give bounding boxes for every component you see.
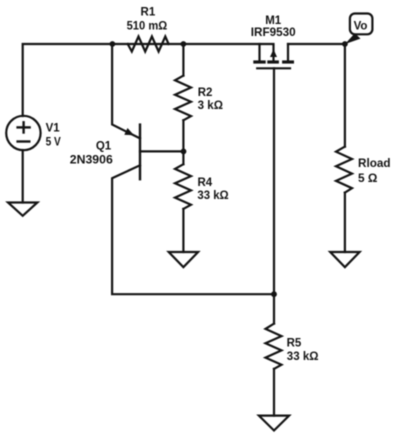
svg-text:Vo: Vo	[354, 20, 368, 32]
svg-text:V1: V1	[46, 123, 61, 135]
svg-text:5 Ω: 5 Ω	[358, 173, 377, 185]
svg-text:Rload: Rload	[358, 158, 391, 170]
svg-text:R4: R4	[198, 177, 213, 189]
svg-text:5 V: 5 V	[46, 137, 61, 149]
svg-text:3 kΩ: 3 kΩ	[198, 100, 223, 112]
svg-text:IRF9530: IRF9530	[251, 27, 296, 39]
svg-text:R1: R1	[141, 6, 156, 18]
svg-text:R5: R5	[287, 338, 302, 350]
svg-text:2N3906: 2N3906	[70, 155, 113, 167]
svg-text:Q1: Q1	[96, 141, 112, 153]
svg-text:33 kΩ: 33 kΩ	[287, 351, 319, 363]
svg-text:R2: R2	[198, 87, 213, 99]
svg-text:M1: M1	[265, 15, 282, 27]
svg-text:33 kΩ: 33 kΩ	[197, 190, 228, 202]
svg-text:510 mΩ: 510 mΩ	[127, 21, 168, 33]
